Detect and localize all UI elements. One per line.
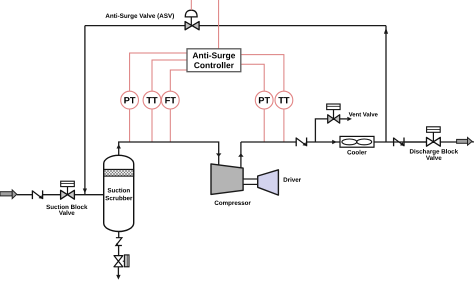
instrument PT1 PT (121, 91, 139, 109)
signal line PT1 to controller (130, 53, 187, 91)
arrow down into suction junction (83, 189, 87, 194)
arrow up scrubber overhead (117, 144, 121, 148)
wire suction line (17, 194, 104, 196)
driver (258, 170, 279, 195)
label suction block valve (46, 205, 87, 210)
anti-surge valve ASV (185, 10, 199, 30)
arrow up on right riser (384, 28, 388, 34)
signal tap FT1 (169, 109, 171, 142)
arrow down compressor inlet (216, 153, 221, 157)
check valve CV2 (296, 138, 306, 147)
signal tap TT2 (283, 109, 285, 142)
wire right recycle riser (385, 26, 387, 142)
drain valve (114, 255, 129, 267)
instrument TT2 TT (275, 91, 293, 109)
check valve CV3 (394, 138, 404, 147)
wire discharge line (241, 141, 457, 143)
label discharge block valve (410, 149, 458, 155)
instrument PT2 PT (255, 91, 273, 109)
wire left recycle riser (84, 26, 86, 195)
suction block valve (61, 181, 75, 199)
label cooler (347, 150, 366, 155)
arrow up compressor discharge (238, 153, 243, 156)
wire compressor discharge riser (240, 142, 242, 168)
wire scrubber overhead to compressor (119, 142, 219, 165)
signal line TT2 to controller (241, 55, 284, 92)
label vent valve (349, 112, 378, 116)
wire after CV3 (404, 141, 427, 143)
instrument FT1 FT (161, 91, 179, 109)
vent valve (327, 104, 340, 123)
vessel suction scrubber (104, 155, 134, 231)
label Anti-Surge Valve (ASV) (106, 13, 175, 19)
signal line PT2 to controller (241, 64, 264, 91)
suction inlet flow arrow (0, 190, 17, 199)
wire drain outlet (117, 267, 119, 276)
signal tap PT2 (263, 109, 265, 142)
arrow into cooler (332, 140, 337, 145)
signal line FT1 to controller (170, 70, 187, 91)
arrow vent outlet (347, 117, 352, 121)
wire drain to valve (118, 246, 120, 256)
discharge block valve (427, 127, 441, 146)
wire scrubber drain (118, 231, 120, 237)
wire vent outlet (340, 118, 348, 120)
check valve CV1 (32, 190, 42, 199)
signal line to ASV actuator (190, 0, 192, 10)
instrument TT1 TT (143, 91, 161, 109)
label compressor (215, 201, 251, 207)
cooler (340, 136, 374, 147)
compressor (211, 164, 243, 195)
signal tap TT1 (151, 109, 153, 142)
compressor shaft (243, 179, 258, 184)
wire top recycle line (85, 25, 386, 27)
wire vent branch (315, 119, 327, 142)
controller U1 Anti-Surge Controller (187, 49, 241, 72)
label driver (284, 177, 301, 182)
arrow drain outlet (116, 275, 120, 280)
signal line controller top (218, 0, 220, 49)
signal line TT1 to controller (152, 60, 187, 91)
scrubber demister pad (104, 169, 134, 176)
drain Z break symbol (115, 238, 122, 247)
signal tap PT1 (129, 109, 131, 142)
discharge outlet flow arrow (457, 138, 474, 146)
